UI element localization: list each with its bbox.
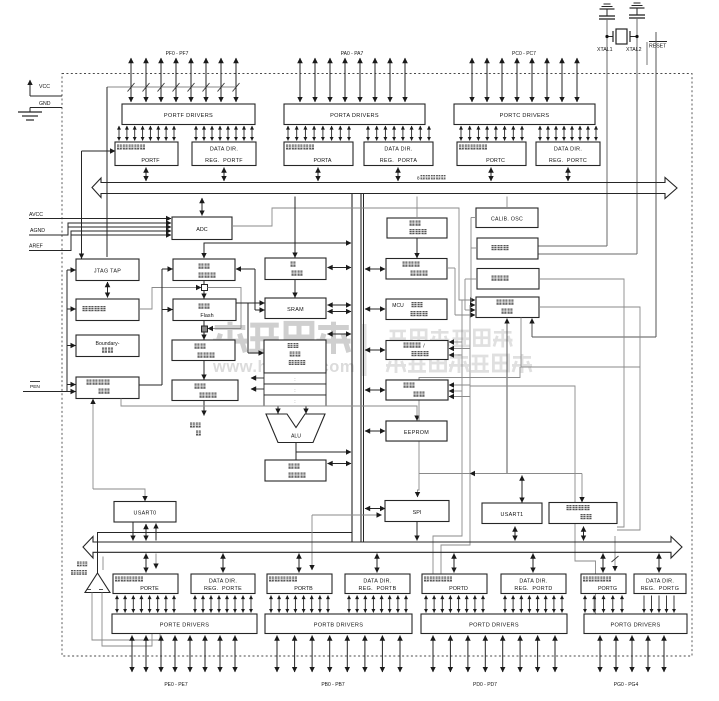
EEPROM	[386, 421, 447, 441]
timing and control	[476, 297, 539, 318]
on-chip debug box	[76, 299, 139, 321]
data dir reg PORTB	[345, 574, 410, 594]
stack to sram arrow	[294, 280, 296, 298]
wire flash right to counter right	[236, 269, 265, 310]
ALU	[266, 414, 325, 443]
internal oscillator	[387, 218, 447, 238]
ground symbol	[18, 111, 42, 113]
PORTC pin arrows	[472, 58, 577, 102]
timer/counters	[386, 341, 448, 360]
ADC	[172, 217, 232, 240]
svg-text:AREF: AREF	[29, 244, 43, 250]
register X	[264, 373, 326, 384]
data register PORTA	[284, 142, 353, 166]
svg-text:DATA DIR.: DATA DIR.	[209, 579, 237, 585]
JTAG tap line across PORTF pins	[107, 83, 240, 257]
programming logic box	[76, 377, 139, 399]
XTAL2 ground+cap symbol	[634, 2, 641, 4]
svg-text::: :	[294, 388, 295, 393]
svg-text:PD0 - PD7: PD0 - PD7	[473, 682, 497, 688]
general purpose registers	[264, 340, 326, 373]
USART0 to PORTE wires	[145, 524, 147, 541]
XTAL2 wire	[636, 18, 638, 254]
PORTF drivers	[122, 104, 255, 125]
svg-text:PORTF DRIVERS: PORTF DRIVERS	[164, 113, 213, 119]
PORTC drivers	[454, 104, 595, 125]
wire flash-sram link	[236, 303, 265, 353]
svg-text:ALU: ALU	[291, 434, 301, 440]
svg-text:Flash: Flash	[200, 313, 213, 319]
data dir reg PORTD	[501, 574, 566, 594]
data dir reg PORTA	[364, 142, 433, 166]
PORTB drivers	[265, 614, 412, 634]
XTAL1 ground+cap symbol	[604, 3, 611, 5]
control lines label	[203, 401, 205, 416]
wire debug to flash tap	[139, 288, 201, 310]
PORTG drivers	[584, 614, 687, 634]
data register PORTB	[267, 574, 332, 594]
svg-text:DATA DIR.: DATA DIR.	[384, 147, 412, 153]
data dir reg PORTG	[634, 574, 686, 594]
chip boundary dashed border	[62, 74, 692, 657]
svg-text:PORTD DRIVERS: PORTD DRIVERS	[469, 623, 519, 629]
PORTE drivers	[112, 614, 257, 634]
oscillator 2	[477, 269, 539, 290]
svg-text:PF0 - PF7: PF0 - PF7	[166, 51, 189, 57]
analog comparator	[85, 573, 110, 593]
svg-text:PB0 - PB7: PB0 - PB7	[321, 682, 345, 688]
data dir reg PORTC	[536, 142, 600, 166]
PORTA pin arrows	[300, 58, 405, 102]
wire programming logic to EEPROM	[121, 399, 417, 421]
JTAG-debug arrow	[107, 282, 109, 298]
wire bus to program counter	[204, 243, 348, 258]
svg-text:PORTA DRIVERS: PORTA DRIVERS	[330, 113, 379, 119]
svg-text:PC0 - PC7: PC0 - PC7	[512, 51, 536, 57]
data register PORTE	[113, 574, 178, 594]
bus to calib stub	[506, 197, 508, 209]
PORTE pin arrows	[132, 636, 235, 673]
8-bit data bus (top)	[92, 178, 677, 199]
bus to bottom registers arrows	[146, 554, 659, 573]
USART1 to bus arrow	[514, 527, 516, 541]
instruction register	[172, 340, 235, 361]
svg-text:PORTC DRIVERS: PORTC DRIVERS	[500, 113, 550, 119]
comparator output stem	[98, 533, 352, 574]
data register PORTG	[581, 574, 626, 594]
program counter	[173, 259, 235, 281]
svg-text:PORTF: PORTF	[141, 158, 160, 164]
svg-text:JTAG TAP: JTAG TAP	[94, 269, 121, 275]
right side clock routing	[419, 279, 640, 614]
register row left arrows	[251, 377, 264, 379]
status register	[265, 460, 326, 481]
wire PORTF reg to JTAG	[82, 150, 116, 152]
svg-text:RESET: RESET	[649, 44, 667, 50]
svg-text:REG. PORTG: REG. PORTG	[641, 586, 680, 592]
data register PORTC	[457, 142, 526, 166]
RESET wire	[655, 32, 657, 337]
peripheral bus arrows	[365, 269, 385, 509]
svg-text:DATA DIR.: DATA DIR.	[210, 147, 238, 153]
watermark slogan line1	[389, 331, 407, 346]
svg-text:PORTB: PORTB	[294, 586, 313, 592]
XTAL1 wire	[606, 19, 608, 246]
USART1	[482, 503, 542, 524]
CALIB OSC	[476, 208, 538, 228]
vertical data bus line A	[351, 194, 353, 543]
svg-text:DATA DIR.: DATA DIR.	[363, 579, 391, 585]
stack pointer	[265, 258, 326, 280]
svg-text:DATA DIR.: DATA DIR.	[519, 579, 547, 585]
boundary scan box	[76, 335, 139, 357]
instruction decoder	[172, 380, 238, 401]
step wires crossing bus	[433, 474, 462, 574]
register Y	[264, 384, 326, 395]
counter-square-flash links	[203, 281, 205, 285]
stub line near reset	[646, 42, 648, 65]
watermark slogan line2	[386, 354, 406, 373]
two-wire serial interface	[549, 503, 617, 524]
vertical data bus line C	[363, 194, 365, 543]
bus to PORTG clock wire	[614, 536, 616, 571]
status register right arrow	[328, 463, 352, 465]
svg-text:MCU: MCU	[392, 303, 404, 309]
PORTD pin arrows	[433, 636, 555, 673]
USART0 to bus arrow	[132, 522, 134, 541]
svg-text:AGND: AGND	[30, 228, 45, 234]
MCU control register	[386, 299, 447, 320]
svg-text:PE0 - PE7: PE0 - PE7	[164, 682, 188, 688]
data dir reg PORTE	[191, 574, 255, 594]
flash to instruction reg arrow	[203, 361, 205, 380]
timing bottom feeds	[506, 319, 508, 474]
watermark divider bar	[362, 324, 367, 376]
osc to watchdog arrow	[416, 238, 418, 258]
cpu column bus arrows	[328, 268, 352, 335]
TWI to bus arrow	[583, 527, 585, 541]
crystal	[616, 29, 627, 44]
svg-text:Boundary-: Boundary-	[96, 341, 120, 347]
flash tap square 1	[202, 285, 208, 291]
svg-text:AVCC: AVCC	[29, 212, 43, 218]
PORTG pin arrows	[600, 636, 664, 673]
bus to internal osc stub	[416, 197, 418, 219]
SPI	[385, 501, 449, 522]
left feeder line	[67, 270, 76, 391]
svg-text:SPI: SPI	[413, 510, 422, 516]
oscillator 1	[477, 238, 538, 259]
svg-text:GND: GND	[39, 101, 51, 107]
svg-text:REG. PORTC: REG. PORTC	[549, 158, 587, 164]
PORTA drivers	[284, 104, 425, 125]
data register PORTD	[422, 574, 487, 594]
comparator input wires	[92, 593, 160, 641]
8-bit data bus (bottom)	[83, 537, 682, 559]
wire tap to status register	[208, 288, 242, 329]
svg-text:USART1: USART1	[501, 512, 524, 518]
svg-text:PORTG DRIVERS: PORTG DRIVERS	[610, 623, 660, 629]
svg-text:PEN: PEN	[30, 384, 40, 390]
svg-text:ADC: ADC	[196, 227, 207, 233]
svg-text:PA0 - PA7: PA0 - PA7	[341, 51, 364, 57]
wire ADC to timing/control	[232, 208, 475, 300]
program flash	[173, 299, 236, 321]
svg-text:USART0: USART0	[134, 511, 157, 517]
USART0	[114, 502, 176, 523]
svg-text::: :	[294, 377, 295, 382]
svg-text:PORTA: PORTA	[313, 158, 331, 164]
svg-text:CALIB. OSC: CALIB. OSC	[491, 217, 523, 223]
svg-text:PORTE DRIVERS: PORTE DRIVERS	[160, 623, 210, 629]
PORTB pin arrows	[277, 636, 400, 673]
wire bus to stack pointer	[294, 197, 296, 258]
svg-text:REG. PORTA: REG. PORTA	[380, 158, 418, 164]
peripheral feed verticals	[449, 300, 470, 473]
JTAG TAP	[76, 259, 139, 281]
PORTD drivers	[421, 614, 567, 634]
horizontal feed to USART1/TWI	[419, 474, 582, 503]
svg-text:XTAL1: XTAL1	[597, 47, 613, 53]
VCC pin	[29, 80, 31, 96]
svg-text:PORTC: PORTC	[486, 158, 505, 164]
EEPROM redraw	[386, 421, 447, 441]
AREF second wire	[71, 234, 171, 236]
svg-text:EEPROM: EEPROM	[404, 430, 429, 436]
comb arrows drivers-registers PORTF	[119, 126, 174, 141]
interrupt unit redraw	[386, 380, 448, 400]
svg-text:PG0 - PG4: PG0 - PG4	[614, 682, 639, 688]
data dir reg PORTF	[192, 142, 256, 166]
svg-text::: :	[294, 399, 295, 404]
comb arrows drivers-registers PORTC	[461, 126, 522, 141]
comb arrows drivers-registers PORTA	[288, 126, 349, 141]
ADC to bus arrow	[201, 198, 203, 216]
svg-text:PORTD: PORTD	[449, 586, 468, 592]
svg-text:REG. PORTD: REG. PORTD	[514, 586, 552, 592]
vertical data bus line B	[360, 194, 362, 543]
PORTF pin arrows	[131, 58, 236, 102]
svg-text:DATA DIR.: DATA DIR.	[646, 579, 674, 585]
svg-text:DATA DIR.: DATA DIR.	[554, 147, 582, 153]
ALU output wire	[295, 443, 297, 461]
SPI to PORTB wire	[312, 514, 382, 516]
data register PORTF	[115, 142, 178, 166]
svg-text:XTAL2: XTAL2	[626, 47, 642, 53]
programming feeder to counter/flash	[139, 269, 173, 385]
flash tap square 2	[202, 326, 208, 332]
svg-text:PORTE: PORTE	[140, 586, 159, 592]
svg-text:REG. PORTB: REG. PORTB	[359, 586, 397, 592]
svg-text:SRAM: SRAM	[287, 307, 304, 313]
SPI to bus arrow	[416, 522, 418, 541]
PEN pin	[30, 381, 40, 383]
register Z	[264, 395, 326, 406]
regfile to ALU arrows	[277, 406, 279, 414]
osc feeds to timing	[447, 218, 477, 316]
SPI top feed	[418, 474, 420, 498]
interrupt unit	[386, 380, 448, 400]
SRAM	[265, 298, 326, 319]
comb arrows registers-drivers bottom	[117, 596, 174, 613]
svg-text:REG. PORTF: REG. PORTF	[205, 158, 243, 164]
svg-text:REG. PORTE: REG. PORTE	[204, 586, 242, 592]
svg-text:PORTG: PORTG	[598, 586, 617, 592]
watermark: big brand glyphs	[213, 322, 247, 354]
analog comparator label	[77, 562, 87, 567]
arrows registers to data bus	[146, 168, 568, 182]
svg-text:PORTB DRIVERS: PORTB DRIVERS	[314, 623, 364, 629]
wire programming logic to USART0	[92, 399, 94, 489]
svg-text:VCC: VCC	[39, 84, 50, 90]
svg-text:8: 8	[417, 176, 420, 181]
watchdog timer	[386, 259, 447, 280]
